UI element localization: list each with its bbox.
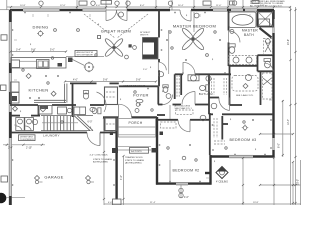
svg-text:BEDROOM #2: BEDROOM #2 (172, 169, 199, 173)
svg-text:SEE PLAN DTL 1: SEE PLAN DTL 1 (175, 107, 193, 110)
svg-text:SKYLIGHT ABOVE: SKYLIGHT ABOVE (77, 54, 94, 57)
svg-text:BATH: BATH (244, 33, 254, 37)
svg-text:DINING: DINING (32, 25, 48, 30)
svg-text:TO EXTERIOR: TO EXTERIOR (20, 139, 34, 141)
svg-text:11'-0": 11'-0" (216, 5, 222, 7)
svg-text:4'-0": 4'-0" (120, 175, 123, 180)
svg-text:5'-8": 5'-8" (260, 5, 265, 7)
svg-text:8'-4": 8'-4" (140, 5, 145, 7)
svg-text:8'-0": 8'-0" (278, 143, 281, 148)
svg-text:VENT F.P.: VENT F.P. (140, 34, 149, 36)
svg-text:MASTER: MASTER (242, 28, 258, 32)
svg-text:ATTIC ACCESS: ATTIC ACCESS (175, 105, 191, 108)
svg-text:LINE OF DR ABOVE: LINE OF DR ABOVE (123, 85, 146, 88)
svg-text:6'-0": 6'-0" (96, 5, 101, 7)
svg-text:KITCHEN: KITCHEN (28, 88, 48, 93)
svg-text:4'-0": 4'-0" (108, 202, 113, 204)
svg-text:5'-8": 5'-8" (136, 78, 141, 81)
svg-text:TREATED WOOD: TREATED WOOD (125, 156, 143, 159)
svg-text:6'-0": 6'-0" (88, 120, 93, 123)
svg-text:MASTER BEDROOM: MASTER BEDROOM (173, 24, 216, 29)
svg-text:(AS REQUIRED): (AS REQUIRED) (125, 161, 142, 164)
svg-text:4'-0": 4'-0" (184, 196, 189, 199)
svg-text:SEE 1-BALC DTL: SEE 1-BALC DTL (236, 94, 254, 97)
svg-text:2'-4": 2'-4" (8, 146, 13, 149)
svg-text:2'-10": 2'-10" (26, 146, 32, 149)
svg-text:LAUNDRY: LAUNDRY (43, 134, 60, 138)
svg-text:20'-0": 20'-0" (297, 179, 300, 185)
svg-text:4'-0" CONC WALK: 4'-0" CONC WALK (90, 154, 109, 157)
svg-text:5'-0": 5'-0" (50, 49, 55, 52)
svg-text:BEDROOM #3: BEDROOM #3 (229, 138, 256, 142)
svg-text:GARAGE: GARAGE (44, 174, 63, 179)
svg-text:4'-0": 4'-0" (73, 78, 78, 81)
svg-text:12'-4": 12'-4" (287, 119, 290, 125)
svg-text:5'-8": 5'-8" (103, 78, 108, 81)
svg-text:2'-0": 2'-0" (143, 69, 148, 71)
svg-text:19'-8": 19'-8" (253, 202, 259, 204)
svg-text:16'-4": 16'-4" (178, 5, 184, 7)
svg-text:PORCH: PORCH (129, 121, 143, 125)
svg-text:4x4 POSTS: 4x4 POSTS (131, 151, 142, 153)
svg-text:STEPS TO GRADE: STEPS TO GRADE (125, 159, 145, 162)
svg-text:4' CEILING: 4' CEILING (216, 180, 228, 183)
svg-text:STEPS TO GRADE: STEPS TO GRADE (93, 158, 113, 161)
svg-text:10'-8": 10'-8" (20, 5, 26, 7)
svg-text:AS REQUIRED: AS REQUIRED (93, 160, 108, 163)
svg-text:3'-4": 3'-4" (16, 49, 21, 52)
svg-text:24'-6": 24'-6" (287, 39, 290, 45)
svg-text:BATH #2: BATH #2 (199, 92, 213, 96)
svg-text:21'-4": 21'-4" (150, 202, 156, 204)
svg-text:ALL HDRS TO BE 2-2x10 U.N.O.: ALL HDRS TO BE 2-2x10 U.N.O. (250, 5, 283, 8)
svg-text:12'-6": 12'-6" (60, 5, 66, 7)
